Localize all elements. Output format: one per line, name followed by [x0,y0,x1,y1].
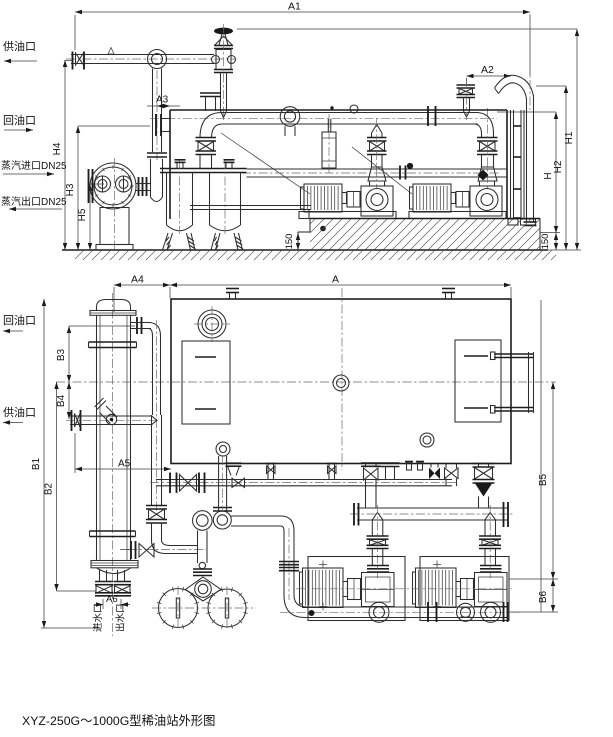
cooler nozzle B [117,570,119,582]
coupling 2 [456,192,469,208]
circle2 outlet pipe [231,515,281,517]
pump1 riser valve [367,137,387,139]
tank center fitting [333,375,349,391]
dim A2 ext [466,78,468,85]
pump1 discharge circle [369,602,389,622]
discharge manifold [357,507,508,509]
svg-text:蒸汽进口DN25: 蒸汽进口DN25 [1,159,67,172]
skid 1 [308,557,405,621]
filter inlet drop pipe [197,531,199,564]
svg-text:供油口: 供油口 [3,39,36,53]
tank plan centerline h [56,381,556,383]
supply riser flange [147,152,167,154]
svg-text:H2: H2 [553,160,564,173]
svg-text:出水口: 出水口 [115,603,127,632]
pump train axis [296,588,512,590]
svg-text:B3: B3 [56,348,67,361]
drop pipe flange [193,568,212,570]
cooler shell [96,315,98,560]
supply riser [152,69,154,153]
elbow circle 2 [213,511,231,529]
gate valve V1 axis [223,24,225,120]
plan ladder stringer [528,352,530,413]
cooler outlet pipe [165,553,198,555]
pump2 discharge circle [481,602,501,622]
strainer pot [150,159,152,197]
gate valve V1 wheel [214,28,233,35]
filter2 shell [209,173,211,226]
tank inner rect right [455,340,501,422]
strainer-heater flanges [138,177,140,196]
plan motor M2 [416,568,457,608]
riser 483 black triangle [475,484,492,497]
manifold left flange [353,503,355,526]
svg-text:A1: A1 [288,1,301,13]
cooler nozzle right [136,317,138,334]
dim A ext right [510,287,512,298]
dim H4 top ext [65,60,72,62]
suction header plan [156,479,452,481]
manifold riser1 tee [372,513,383,520]
steam heater left flange [88,169,90,203]
svg-text:H5: H5 [77,208,88,221]
pump2 suction flange [480,565,502,567]
rectR dash 1 [464,355,488,357]
dim A5 [75,468,171,470]
coupling 1 [347,192,360,208]
dim H [555,112,557,233]
dim A [170,284,511,286]
riser2 axis [489,505,491,578]
supply pipe [71,54,214,56]
pump set1 base [299,212,396,219]
riser elbow plan [151,523,153,541]
dim H2 ext [536,85,566,87]
dim B4 [68,382,70,419]
dim A1 extension right [529,15,531,76]
plan pump P2 [475,573,508,607]
steam heater bolts [92,165,133,206]
tiny stub 1 [407,462,412,470]
tank stub valve 2 [328,464,330,480]
manifold right flange [503,502,505,527]
diamond distributor [186,577,222,601]
ground line [62,249,548,251]
tiny stub 2 [418,462,423,470]
label plan 回油口 arrow [3,330,23,332]
dim H3 [77,126,79,250]
black diamond [478,170,489,181]
skid cross marks [319,561,441,611]
cooler axis [112,293,114,636]
gate valve V1 stem [215,34,233,46]
svg-text:A3: A3 [156,95,169,106]
foundation outline [310,218,540,220]
supply elbow [148,50,167,69]
pump1 suction flange [367,565,389,567]
ladder base plates [508,219,518,225]
pump P1 [361,186,393,216]
dim H2 [565,86,567,250]
level gauge capsule [327,119,329,132]
svg-text:H3: H3 [65,183,76,196]
tank top nozzle 2 [445,293,447,300]
cooler bottom flange [91,561,138,568]
filter B plan [208,589,246,627]
svg-text:B4: B4 [56,394,67,407]
cooler nozzle elbow [149,323,161,337]
dim B5 line long [540,300,542,612]
plan ladder rail 1 [494,353,533,355]
filters top plate [160,168,247,170]
pump1 riser [372,125,383,134]
elbow circle 1 [193,511,213,531]
svg-text:回油口: 回油口 [3,313,36,327]
plan ladder rail 2 [494,407,533,409]
dim B6 ext [507,611,558,613]
dim H ext [497,111,556,113]
gate valve V1 bottom flange [214,69,233,71]
dim A1 line [75,11,530,13]
plan motor M1 [303,568,344,608]
filter1 legs [163,233,173,250]
svg-text:B5: B5 [538,473,549,486]
cooler outlet flanges [130,541,132,559]
tank drain pipe [218,456,220,511]
svg-text:蒸汽出口DN25: 蒸汽出口DN25 [1,195,67,208]
return pipe flange pair [427,106,429,126]
dim B3 [68,326,70,382]
svg-text:A2: A2 [481,64,494,76]
discharge elbow [284,595,307,618]
skid 2 [420,557,509,621]
tank riser 451 valve [445,464,447,468]
suction header [247,168,508,170]
pump2 suction valve [484,520,486,536]
dim B5 [552,382,554,579]
discharge line [305,606,507,608]
manhole [198,310,226,338]
pump set2 base [409,212,506,219]
cooler top plate [90,311,136,316]
svg-text:供油口: 供油口 [3,405,36,419]
label 蒸汽进口 arrow [3,173,54,175]
discharge flange pair [427,602,429,622]
circle2 flange [213,507,232,509]
header flange pair [399,166,401,180]
manifold riser2 tee [485,513,496,520]
svg-text:B1: B1 [31,457,42,470]
svg-text:XYZ-250G～1000G型稀油站外形图: XYZ-250G～1000G型稀油站外形图 [22,714,215,728]
dim A2 [467,75,512,77]
V1 down pipe [220,73,222,111]
tank stub valve 1 [267,464,269,480]
svg-text:150: 150 [284,234,295,250]
return riser valve [196,137,217,139]
black dot discharge [309,610,315,616]
dim B2 bottom ext [57,590,97,592]
black dot foundation [320,226,326,232]
ladder rungs [514,125,522,127]
tank circle fitting [420,433,434,447]
return pipe left elbow [200,113,222,139]
dim H5 [89,184,91,250]
filter1 top fitting [176,162,178,169]
gooseneck pipe [495,75,534,222]
tank top nozzle 1 [229,293,231,300]
motor M2 [413,184,451,212]
dim B2 [56,382,58,591]
svg-text:H4: H4 [52,142,63,155]
svg-text:A: A [332,274,339,286]
foundation hatch [310,219,540,250]
wye fitting [228,466,240,476]
svg-text:H1: H1 [564,131,575,144]
filter2 top fitting [225,162,227,169]
heater pedestal [100,208,129,245]
svg-text:进水口: 进水口 [92,603,104,632]
return pipe right elbow [474,113,494,135]
header check valve [232,478,245,487]
dim H4 [64,60,66,250]
label plan 供油口 arrow [3,422,23,424]
dim B6 [552,579,554,612]
label 蒸汽出口 arrow [9,208,62,210]
gooseneck flange [524,221,537,223]
dim B5 ext [509,578,558,580]
cooler band 1 [89,341,137,343]
tank plan outline [171,299,511,464]
plan pump P1 [362,573,395,607]
rectL dash 1 [195,356,216,358]
tank plan centerline v [341,288,343,470]
dim H1 top extension [237,28,577,30]
header valve cluster [169,473,171,494]
dim A4 ext [113,287,115,312]
weld mark A [108,48,114,55]
tank drain circle [216,442,230,456]
rectR dash 2 [464,407,488,409]
motor M1 [304,184,342,212]
plan coupling 1 [348,579,361,600]
tank inner rect left [182,341,230,424]
vent circle [350,105,358,113]
small valve circle [199,562,205,568]
filter2 legs [211,233,220,250]
supply flange plan [71,410,73,431]
pump2 reducer [478,167,497,181]
gooseneck axis [529,14,531,110]
dim B1 bottom ext [41,627,99,629]
tank riser 483 [478,464,480,468]
filter drain pipe [190,205,311,207]
tank interior diagonal 2 [352,147,412,194]
steam heater eye 2 [116,176,132,192]
tank front outline [170,109,507,111]
plan coupling 2 [461,579,474,600]
plan M1 shaft [343,582,348,597]
dim H5 top ext [90,183,104,185]
svg-text:A6: A6 [106,594,118,605]
pump P2 [470,186,502,216]
outlet elbow down [281,516,294,531]
filter1 shell [166,173,168,226]
pump2 riser axis [487,108,489,188]
valve V2 [457,84,476,86]
discharge cross circle [457,603,475,621]
dim B1 [43,299,45,628]
svg-text:150: 150 [540,234,551,250]
supply pipe plan [70,415,151,417]
tank riser 365 to manifold [365,464,367,468]
dim A1 extension left [74,15,76,50]
dim A4 [114,284,170,286]
tank interior diagonal 1 [221,133,310,194]
tank riser 390 [385,467,387,480]
supply pipe tee tip [151,416,157,426]
ladder rails [510,110,512,219]
dim B3 top ext [69,325,135,327]
pump2 riser valve [481,134,483,138]
outlet drop pipe [283,531,285,595]
pump1 reducer [368,167,386,181]
tank front left nozzle [155,114,157,136]
cooler band 2 [90,530,136,532]
outlet drop flange [279,561,299,563]
filters axis h [152,607,253,609]
dim H3 top ext [78,125,150,127]
return elbow circle [280,107,300,127]
steam heater shell [90,163,136,209]
svg-text:A4: A4 [131,274,144,286]
gate valve V1 top flange [214,45,233,47]
dim 150 right [555,233,557,250]
plan M2 shaft [456,582,461,597]
svg-text:B6: B6 [538,590,549,603]
cooler dome [97,300,131,312]
return riser blind flange [200,92,221,94]
ground hatch strip [75,251,556,261]
label 回油口 arrow [4,129,33,131]
riser 483 valve [475,468,493,480]
dim H1 [576,29,578,250]
svg-text:A5: A5 [118,459,131,470]
black valve plan [429,468,435,480]
pump1 suction valve [371,520,373,536]
dim 150 left [297,233,299,250]
cooler dished bottom [97,568,131,574]
cooler nozzle A [99,570,101,582]
svg-text:B2: B2 [44,482,55,495]
riser pipe upper [152,336,154,415]
supply pipe end flange [72,52,74,70]
return pipe [222,112,478,114]
rectL dash 2 [195,408,216,410]
riser1 axis [377,505,379,578]
riser valve plan [151,415,153,506]
cooler diag stub [95,398,118,424]
discharge end flange [503,602,505,622]
filter A plan [159,589,198,628]
pump1 riser axis [376,118,378,188]
steam heater eye 1 [95,176,111,192]
svg-text:回油口: 回油口 [3,113,36,127]
black dot on header [407,163,413,169]
gate valve V1 body [216,50,231,70]
stub valve circle [106,414,116,424]
tank plan ext left [169,287,171,298]
label 供油口 arrow [4,60,37,62]
